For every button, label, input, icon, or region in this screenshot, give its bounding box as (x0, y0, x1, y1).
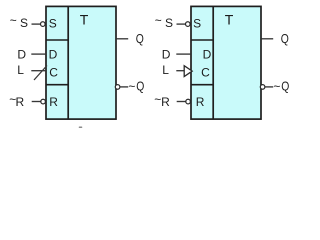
U2 R cell divider (191, 84, 213, 86)
svg-text:T: T (80, 12, 89, 28)
svg-text:R: R (196, 95, 205, 109)
svg-text:T: T (225, 12, 234, 28)
svg-text:L: L (162, 63, 169, 77)
svg-text:S: S (165, 16, 173, 30)
wire U1 S input (32, 23, 41, 25)
U1 S inversion bubble (41, 22, 46, 27)
svg-text:Q: Q (136, 32, 144, 46)
svg-text:D: D (203, 47, 212, 61)
U2 S cell divider (191, 39, 213, 41)
svg-text:~: ~ (128, 79, 135, 93)
svg-text:D: D (17, 48, 26, 62)
svg-text:Q: Q (281, 32, 289, 46)
wire U2 ~Q output (265, 86, 273, 88)
wire U2 C input (176, 70, 184, 72)
wire U1 R input (32, 101, 41, 103)
svg-text:~: ~ (155, 13, 162, 27)
wire U1 D input (31, 53, 45, 55)
U1 S cell divider (46, 39, 68, 41)
cut-off reference label below U1 (79, 127, 83, 129)
wire U2 R input (177, 101, 186, 103)
U1 pin column divider (67, 6, 69, 119)
flip-flop U1 body (46, 6, 116, 119)
U1 ~Q inversion bubble (115, 85, 120, 90)
svg-text:~: ~ (10, 13, 17, 27)
U1 R cell divider (46, 84, 68, 86)
svg-text:D: D (49, 48, 58, 62)
svg-text:~: ~ (273, 79, 280, 93)
wire U1 Q output (117, 38, 129, 40)
U2 C clock triangle (184, 66, 192, 77)
wire U1 ~Q output (120, 86, 128, 88)
svg-text:Q: Q (281, 80, 289, 94)
U2 pin column divider (212, 6, 214, 119)
svg-text:Q: Q (136, 80, 144, 94)
svg-text:S: S (193, 17, 201, 31)
svg-text:L: L (17, 63, 24, 77)
svg-text:R: R (15, 95, 24, 109)
wire U1 C input (31, 70, 45, 72)
U1 R inversion bubble (41, 99, 46, 104)
svg-text:R: R (49, 95, 58, 109)
svg-text:S: S (49, 17, 57, 31)
wire U2 S input (177, 23, 186, 25)
svg-text:S: S (20, 16, 28, 30)
svg-text:C: C (201, 66, 210, 80)
svg-text:C: C (49, 66, 58, 80)
wire U2 Q output (262, 38, 274, 40)
U1 C edge slash (34, 66, 47, 81)
U2 R inversion bubble (186, 99, 191, 104)
svg-text:D: D (162, 48, 171, 62)
flip-flop U2 body (191, 6, 261, 119)
U2 ~Q inversion bubble (260, 85, 265, 90)
wire U2 D input (176, 53, 190, 55)
svg-text:R: R (161, 95, 170, 109)
U2 S inversion bubble (186, 22, 191, 27)
